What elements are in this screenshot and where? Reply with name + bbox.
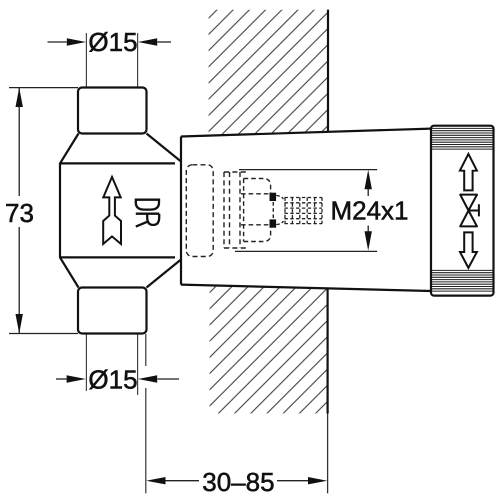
body top face xyxy=(60,162,175,164)
knurl band bottom xyxy=(432,270,493,291)
cone top edge xyxy=(181,129,431,137)
dimension Ø15 top: left arrowhead xyxy=(67,38,86,45)
valve body octagon left xyxy=(60,134,79,288)
hidden internals: cap left edge xyxy=(243,179,245,242)
hidden internals: inner cylinder dashed lines xyxy=(224,172,240,248)
dimension M24x1: extension and dimension lines xyxy=(235,170,377,252)
dimension M24x1: top arrowhead xyxy=(365,170,372,190)
wall edge extension line (30-85 right) xyxy=(327,414,329,494)
hidden internals: bore dashed rect xyxy=(186,165,213,257)
dimension M24x1: bottom arrowhead xyxy=(365,231,372,250)
bottom pipe left edge / extension line xyxy=(85,334,87,392)
svg-text:Ø15: Ø15 xyxy=(88,27,137,57)
union nut bottom xyxy=(78,288,147,334)
flow arrow in body xyxy=(103,177,121,244)
hidden internals: cap bottom xyxy=(241,225,271,242)
seal black square top xyxy=(270,193,277,201)
hidden internals: cylinder connectors xyxy=(224,172,246,248)
dimension Ø15 bottom: leader lines xyxy=(56,378,179,380)
svg-text:M24x1: M24x1 xyxy=(330,196,408,226)
dimension Ø15 top: leader lines xyxy=(48,41,172,43)
bottom pipe right edge / extension line xyxy=(137,334,139,396)
dimension Ø15 bottom: left arrowhead xyxy=(67,375,86,382)
dimension Ø15 bottom: right arrowhead xyxy=(138,375,157,382)
svg-text:73: 73 xyxy=(5,198,34,228)
dimension Ø15 top: right arrowhead xyxy=(138,38,157,45)
spindle-to-thread curves xyxy=(276,196,283,225)
top pipe right edge / extension line xyxy=(137,33,139,88)
wall right edge upper xyxy=(327,10,329,132)
sleeve down arrow xyxy=(460,232,477,268)
dimension 73: bottom arrowhead xyxy=(16,314,23,334)
body bottom face xyxy=(60,256,175,258)
wall right edge lower xyxy=(327,288,329,413)
spindle between seals dashed xyxy=(272,202,274,219)
union nut top xyxy=(78,88,147,134)
dimension 30-85: right arrowhead xyxy=(308,477,327,484)
seal black square bottom xyxy=(270,219,277,227)
wall upper section hatch xyxy=(200,0,340,145)
svg-text:30–85: 30–85 xyxy=(202,467,274,497)
body slant bottom-right xyxy=(147,260,182,288)
cone bottom edge xyxy=(181,285,431,291)
top pipe left edge / extension line xyxy=(85,33,87,88)
body slant top-right xyxy=(147,134,182,162)
hidden internals: cap top xyxy=(241,179,271,194)
svg-text:Ø15: Ø15 xyxy=(88,364,137,394)
dimension 30-85: dimension lines xyxy=(166,480,309,482)
wall lower section hatch xyxy=(200,280,340,420)
knurl band top xyxy=(432,128,493,149)
sleeve up arrow xyxy=(460,154,477,191)
dimension 73: extension and dimension lines xyxy=(9,88,78,334)
sleeve valve symbol (bowtie) xyxy=(460,195,479,227)
sleeve (protection cap) right xyxy=(431,126,494,296)
dimension 73: top arrowhead xyxy=(16,88,23,107)
thread stub dashed grid xyxy=(285,198,323,224)
dimension 30-85: left arrowhead xyxy=(146,477,165,484)
dimension 30-85: left extension line xyxy=(145,334,147,366)
DR marking: letter R xyxy=(136,214,159,227)
DR marking (rotated) : letter D xyxy=(136,200,159,210)
cone left edge xyxy=(180,137,182,285)
